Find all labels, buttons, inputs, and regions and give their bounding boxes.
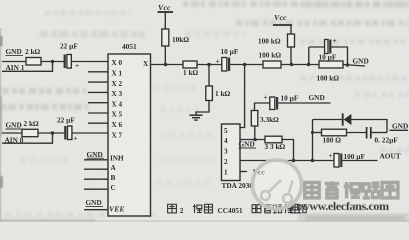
wire GND input1	[2, 61, 26, 63]
pin stub VEE grounded	[84, 209, 108, 211]
wire parallel block top right	[331, 47, 347, 65]
power Vcc1 symbol	[158, 12, 174, 29]
resistor R1 2k	[26, 58, 41, 66]
wire C5 to GND end	[278, 102, 330, 104]
node F junction	[346, 63, 350, 67]
wire C1 to X0	[71, 61, 108, 63]
wire R8 to GND end	[343, 65, 365, 67]
node B junction	[207, 63, 211, 67]
resistor R11 180ohm	[322, 129, 347, 136]
wire C6 to corner	[372, 132, 388, 134]
resistor R8 100k horizontal	[319, 61, 343, 68]
page left edge	[0, 28, 1, 222]
pin stub C	[84, 188, 108, 190]
wire 3p3k top branch	[255, 103, 271, 111]
wire R9 down to pin4 row	[254, 126, 256, 140]
resistor R4 1k horizontal	[183, 61, 197, 68]
wire R7 down to node D	[290, 47, 292, 65]
wire R4 to C3	[197, 64, 222, 66]
ground symbol G1	[190, 115, 203, 120]
wire zobel row left	[313, 132, 322, 134]
wire pin4 row	[240, 139, 265, 141]
wire parallel block left riser	[308, 47, 310, 65]
resistor R2 2k	[22, 129, 38, 136]
pin stub INH grounded	[84, 159, 108, 161]
wire R3 to row	[164, 46, 166, 65]
capacitor C6 0.22uF	[367, 127, 371, 139]
node X junction with 10k	[164, 63, 168, 67]
node G junction	[253, 138, 257, 142]
caption hanzi yong	[205, 204, 213, 213]
capacitor C7 100uF	[334, 154, 342, 168]
node J junction	[311, 131, 314, 134]
diode D1	[343, 113, 352, 125]
node A8 junction	[51, 131, 55, 135]
wire pin1 stub	[240, 171, 247, 173]
power Vcc2 symbol	[273, 25, 292, 34]
wire C3 to node C	[230, 64, 263, 66]
caption hanzi pin	[273, 205, 282, 213]
node E junction left of RC pair	[307, 63, 311, 67]
wire C7 to AOUT	[342, 160, 377, 162]
resistor R5 1k vertical	[206, 86, 213, 101]
node H junction	[292, 159, 296, 163]
caption hanzi yin	[264, 204, 272, 213]
caption hanzi lu	[297, 205, 306, 213]
wire R2 to node A8	[38, 132, 65, 134]
resistor R9 3.3k vertical	[251, 111, 257, 127]
wire R1 to node A1	[41, 61, 65, 63]
node A1 junction	[51, 60, 55, 64]
wire R5 to ground	[196, 101, 209, 116]
node I junction	[311, 159, 315, 163]
resistor R7 100k vertical	[288, 34, 295, 47]
watermark logo circle	[253, 160, 302, 209]
wire output riser	[312, 120, 314, 161]
capacitor C5 10uF	[270, 97, 278, 110]
watermark hanzi shao	[363, 183, 380, 198]
resistor R3 10k vertical	[162, 29, 169, 46]
wire C2 to X7	[72, 132, 108, 134]
pin stub X4	[88, 102, 108, 104]
IC U1 4051 body	[108, 54, 151, 216]
wire AIN8	[2, 133, 53, 143]
watermark hanzi dian	[305, 181, 398, 198]
IC U2 TDA2030 body	[222, 124, 241, 181]
pin stub X3	[88, 91, 108, 93]
wire GND input8	[2, 132, 22, 134]
wire R6 to node D	[281, 64, 319, 66]
resistor R10 33k horizontal	[265, 136, 282, 143]
capacitor C1 22uF	[64, 55, 72, 69]
capacitor C3 10uF	[222, 58, 230, 72]
caption hanzi dian	[291, 204, 299, 213]
wire node B down	[208, 65, 210, 87]
page bottom edge	[0, 220, 409, 222]
wire parallel block top left	[309, 46, 325, 48]
wire node C down to pin5	[240, 65, 245, 128]
pin stub X1	[88, 71, 108, 73]
watermark hanzi you	[382, 182, 398, 197]
capacitor C2 22uF	[64, 126, 72, 140]
watermark hanzi fa	[344, 182, 361, 198]
watermark dark bottom strip	[298, 213, 409, 222]
wire AIN1	[2, 62, 53, 72]
pin stub X6	[88, 122, 108, 124]
wire R11 to C6	[347, 132, 367, 134]
caption hanzi shi	[193, 204, 202, 213]
caption hanzi qie	[284, 204, 293, 213]
pin stub X5	[88, 112, 108, 114]
wire pin2 row	[240, 160, 334, 162]
caption hanzi de	[252, 205, 261, 213]
watermark hanzi zi	[325, 181, 339, 198]
wire X output	[151, 64, 184, 66]
capacitor C4 10uF	[325, 40, 332, 54]
wire diode row right	[351, 120, 387, 133]
caption hanzi tu	[168, 204, 177, 213]
wire GND5 stub	[390, 129, 409, 131]
wire diode row left	[313, 119, 343, 121]
wire 33k to corner down	[282, 140, 294, 161]
node D junction at 100k vertical	[290, 63, 294, 67]
resistor R6 100k horizontal	[263, 61, 281, 68]
node C junction	[243, 63, 247, 67]
pin stub B	[84, 178, 108, 180]
pin stub A	[84, 168, 108, 170]
pin stub X2	[88, 81, 108, 83]
